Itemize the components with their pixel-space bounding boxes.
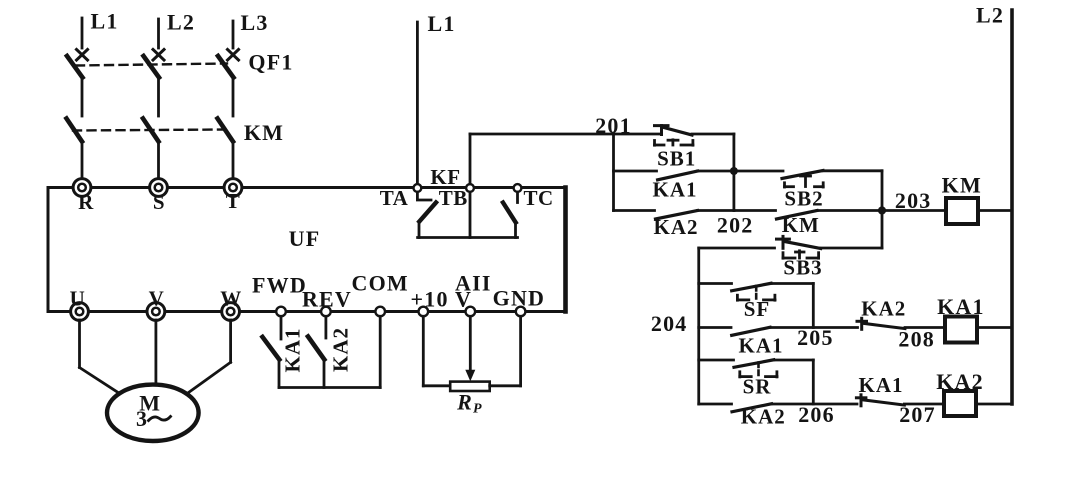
svg-text:207: 207 <box>899 402 936 427</box>
svg-text:203: 203 <box>895 188 932 213</box>
svg-text:3: 3 <box>136 406 147 431</box>
svg-text:L2: L2 <box>976 3 1004 28</box>
svg-text:KA2: KA2 <box>329 327 353 372</box>
svg-text:R: R <box>78 190 94 214</box>
svg-text:L1: L1 <box>90 9 118 34</box>
svg-text:REV: REV <box>302 287 352 312</box>
svg-text:SB2: SB2 <box>784 187 823 211</box>
svg-text:KM: KM <box>244 120 284 145</box>
svg-text:KA2: KA2 <box>741 405 786 429</box>
svg-text:KA1: KA1 <box>859 373 904 397</box>
svg-text:KA1: KA1 <box>653 178 698 202</box>
svg-text:U: U <box>70 287 86 311</box>
svg-text:204: 204 <box>651 311 688 336</box>
svg-text:SB1: SB1 <box>657 147 696 171</box>
svg-text:L1: L1 <box>427 11 455 36</box>
svg-text:208: 208 <box>898 327 935 352</box>
svg-text:201: 201 <box>595 113 632 138</box>
svg-text:SF: SF <box>744 297 771 321</box>
svg-text:KA1: KA1 <box>937 294 985 319</box>
svg-text:S: S <box>153 190 165 214</box>
svg-text:FWD: FWD <box>252 273 307 298</box>
svg-text:QF1: QF1 <box>248 50 293 75</box>
svg-text:TB: TB <box>439 186 468 210</box>
svg-text:GND: GND <box>493 286 546 311</box>
svg-text:COM: COM <box>352 271 409 296</box>
svg-text:UF: UF <box>289 226 321 251</box>
svg-text:SR: SR <box>743 375 772 399</box>
svg-text:W: W <box>220 287 242 311</box>
svg-text:SB3: SB3 <box>783 256 822 280</box>
svg-text:206: 206 <box>798 402 835 427</box>
svg-text:KA2: KA2 <box>654 215 699 239</box>
svg-text:KA1: KA1 <box>739 334 784 358</box>
svg-text:TC: TC <box>524 186 554 210</box>
svg-text:202: 202 <box>717 213 754 238</box>
svg-text:T: T <box>226 189 241 213</box>
svg-text:KA2: KA2 <box>861 297 906 321</box>
svg-text:KM: KM <box>782 213 820 237</box>
svg-text:L2: L2 <box>167 10 195 35</box>
svg-text:L3: L3 <box>240 10 268 35</box>
svg-text:TA: TA <box>380 186 409 210</box>
svg-text:KA1: KA1 <box>281 328 305 373</box>
svg-text:205: 205 <box>797 325 834 350</box>
svg-text:KM: KM <box>942 173 982 198</box>
svg-text:V: V <box>149 287 165 311</box>
svg-text:KA2: KA2 <box>936 369 984 394</box>
svg-text:AII: AII <box>455 271 492 296</box>
